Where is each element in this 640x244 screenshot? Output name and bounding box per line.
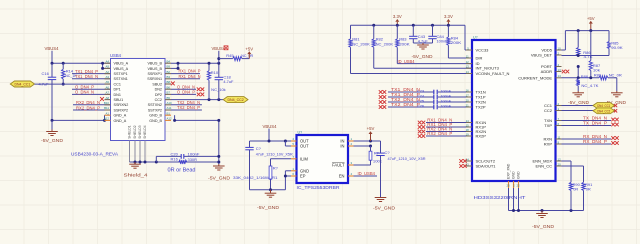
junction VBUS tie bottom [101,67,104,70]
wire ILIM [271,159,292,166]
junction PORT riser [577,65,580,68]
svg-text:B11: B11 [104,106,109,110]
svg-text:B10: B10 [104,101,110,105]
svg-text:12: 12 [466,60,470,64]
svg-text:20: 20 [558,162,562,166]
svg-text:NC_0R: NC_0R [609,72,622,77]
resistor R81 NC_200K [349,25,370,73]
wire RX1_DN4_N [426,122,466,124]
svg-text:O_DN4_N: O_DN4_N [75,90,94,95]
resistor R10 [207,63,225,99]
svg-text:HD3SS3220IRNHT: HD3SS3220IRNHT [474,195,526,201]
no-ERC X on DN4_CC2 (right) [614,109,617,112]
junction R16 branch at riser [217,161,220,164]
svg-text:CC2: CC2 [155,98,162,102]
HD3SS3220 left pin VCONN_FAULT_N (14) [466,70,510,76]
wire DN1 row [72,93,111,95]
svg-text:4.7uF: 4.7uF [223,79,234,84]
HD3SS3220 right pin CURRENT_MODE (14) [518,74,561,80]
svg-text:R16: R16 [171,157,179,162]
svg-text:C?: C? [385,150,391,155]
HD3SS3220 left pin RX1N (14) [466,119,487,125]
junction R82 top [372,24,375,27]
resistor R85 90.9K [607,31,623,56]
svg-text:C?: C? [256,146,262,151]
ground -5V_GND (left) [41,120,63,143]
svg-text:A1: A1 [105,111,109,115]
wire R81 to VCONN_FAULT_N row [351,73,473,75]
ground -5V_GND (below C?) [373,197,395,211]
junction GND/EP tie [284,175,287,178]
junction GND pin 22 [517,209,520,212]
svg-text:TX2P: TX2P [476,105,486,110]
svg-text:3.3V: 3.3V [393,14,402,19]
no-connect X on TX2_DN4_P stub [379,105,383,109]
USB4 left pin GND_A (A1) [105,111,127,117]
junction VBUS_DET riser bottom [577,54,580,57]
wire RX2_DN4_P [426,135,466,137]
svg-text:TXP: TXP [544,123,552,128]
svg-text:VBUS_A: VBUS_A [114,67,129,71]
wire IN1 row [354,140,381,142]
load switch right pin IN (1) [340,137,353,143]
wire TXP [562,125,612,127]
svg-text:200K: 200K [399,41,410,46]
no-connect X on DP2 [197,93,201,97]
junction at R14 top [62,62,65,65]
junction C84 top [431,24,434,27]
HD3SS3220 right pin CC1 (2) [544,102,562,108]
no-connect X on TXP [611,123,615,127]
junction shield pin [144,161,147,164]
svg-text:B8: B8 [167,80,171,84]
load switch left pin EP (6) [291,172,306,178]
HD3SS3220 left pin DIR (11) [466,54,483,60]
svg-text:SSRXN2: SSRXN2 [114,103,129,107]
wire TX2 P row [171,109,202,111]
HD3SS3220 left pin RX2P (19) [466,132,487,138]
svg-text:ID_USB4: ID_USB4 [358,171,376,176]
svg-text:B5: B5 [167,96,171,100]
svg-text:TX_DN4_P: TX_DN4_P [583,121,607,126]
power +5V (right rail) [590,24,592,31]
power VBUS4 (mid) [263,124,278,141]
wire TX1 N row [72,78,111,80]
svg-text:VCC33: VCC33 [476,48,490,53]
no-ERC X on DN4_CC1 [614,104,617,107]
HD3SS3220 left pin TX1N (16) [466,88,486,94]
svg-text:90.9K: 90.9K [611,45,623,50]
wire IN2 row [354,145,371,147]
svg-text:200K: 200K [451,40,462,45]
junction R83 / 3.3V [396,24,399,27]
HD3SS3220 left pin VCC33 (5) [466,46,489,52]
svg-text:IC_TPS2553DRBR: IC_TPS2553DRBR [297,185,340,190]
wire EN [354,175,378,177]
USB4 right pin SBU2 (B8) [152,80,171,86]
svg-text:22: 22 [516,184,520,188]
wire GND bus y190 [250,189,286,191]
svg-text:R10: R10 [211,70,219,75]
svg-text:+5V: +5V [245,46,253,51]
svg-text:TX2_DN4_P: TX2_DN4_P [177,105,200,110]
ground -5V_GND (bottom) [532,211,554,230]
HD3SS3220 right pin VDD5 (10) [541,46,561,52]
svg-text:O_DN4_P: O_DN4_P [177,90,195,95]
resistor R87 10k [589,31,601,78]
wire GND_A tie [52,115,105,120]
no-connect X on RXN [611,136,615,140]
svg-text:CURRENT_MODE: CURRENT_MODE [518,75,552,80]
resistor R83 200K [396,25,410,63]
wire GND/EP tie [285,171,291,190]
svg-text:U?: U? [473,35,478,39]
ground -5V_GND (C43/C84) [412,43,433,59]
HD3SS3220 right pin PORT (4) [541,63,562,69]
resistor R88 NC_4.7K [577,74,599,91]
junction R45 branch [217,57,220,60]
capacitor C? output 47uF [245,141,292,190]
svg-text:20: 20 [466,98,470,102]
svg-text:GND_B: GND_B [149,114,162,118]
svg-text:R45: R45 [226,53,234,58]
svg-text:FAULT: FAULT [332,163,345,168]
junction shield bus / C20 branch [155,161,158,164]
USB4 right pin CC2 (B5) [155,96,171,102]
svg-text:SSRXN1: SSRXN1 [147,77,162,81]
svg-text:GND_A: GND_A [114,114,127,118]
junction C43 top [412,24,415,27]
wire GND riser x218.8 [218,120,220,164]
HD3SS3220 right pin VBUS_DET (2) [531,51,562,57]
no-connect X on SBU1 [100,97,104,101]
svg-text:VBUS4: VBUS4 [263,124,278,129]
no-connect X on RX1_DN4_N stub [418,121,422,125]
svg-text:NC_4.7K: NC_4.7K [581,83,598,88]
junction VBUS_DET riser top [577,29,580,32]
svg-text:19: 19 [466,132,470,136]
wire R45 to +5V [242,58,249,60]
load switch left pin GND (1) [291,167,309,173]
HD3SS3220 bottom pin EXP_PAD (25) [506,163,510,210]
HD3SS3220 right pin CC2 (1) [544,107,562,113]
ground -5V_GND (R89) [605,91,626,105]
svg-text:VBUS4: VBUS4 [212,46,226,51]
wire TX2 N row [171,104,202,106]
junction R10 top [208,62,211,65]
svg-text:0R: 0R [573,187,578,192]
USB4 left pin SSTXN1 (A3) [105,75,128,81]
wire VBUS_DET riser / resistor R86 4.7K [577,31,593,59]
svg-text:3.3V: 3.3V [444,14,453,19]
HD3SS3220 left pin TX2N (20) [466,98,486,104]
wire VBUS_B tie x178 [177,63,179,68]
load switch right pin IN (2) [340,142,353,148]
svg-text:25: 25 [506,184,510,188]
USB4 shield pin Shield2 [133,125,137,162]
svg-text:USB4230-03-A_REVA: USB4230-03-A_REVA [71,152,119,158]
svg-text:A5: A5 [105,80,109,84]
resistor R14 [62,63,77,84]
wire R82 to INT_N/OUT3 [374,67,472,69]
USB4 shield pin Shield1 [128,125,132,162]
wire DN2 row [171,88,196,90]
svg-text:RX2_DN4_P: RX2_DN4_P [427,131,452,136]
no-connect X on SBU2 [171,82,175,86]
HD3SS3220 right pin RXN (11) [544,135,562,141]
svg-text:NC_0R: NC_0R [241,53,253,58]
USB4 right pin VBUS_B (B4) [147,59,171,65]
junction GND_B tie [173,119,176,122]
resistor R82 NC_200K [372,25,393,68]
junction GND_B at riser [217,119,220,122]
svg-text:VCONN_FAULT_N: VCONN_FAULT_N [476,71,510,76]
svg-text:-5V_GND: -5V_GND [412,54,433,59]
HD3SS3220 left pin SDA/OUT1 (23) [466,162,497,168]
svg-text:R?: R? [273,166,279,171]
svg-text:0R or Bead: 0R or Bead [168,168,196,174]
HD3SS3220 bottom pin GND (22) [516,171,520,211]
USB4 right pin GND_B (B1) [149,111,171,117]
wire to R45 [219,58,233,60]
wire DP2 row [171,93,196,95]
wire VBUS_A tie x102.6 [103,63,111,68]
capacitor C84 100nF [423,25,448,43]
wire RX1 N row [171,78,200,80]
resistor R91 0R [582,182,592,210]
svg-text:14: 14 [466,119,470,123]
svg-text:DP2: DP2 [155,93,162,97]
wire ENN_MDX to R90 [562,161,572,182]
load switch right pin EN (4) [339,172,354,178]
no-connect X on TX1_DN4_P stub [379,95,383,99]
svg-text:B12: B12 [104,117,110,121]
svg-text:GND: GND [512,171,516,179]
svg-text:-5V_GND: -5V_GND [373,206,395,211]
USB4 left pin VBUS_A (A9) [105,65,129,71]
USB4 right pin SSTXP2 (A11) [148,106,172,112]
wire RXP [562,143,612,145]
USB4 left pin SSRXP2 (B11) [104,106,128,112]
wire R89 to ground [608,78,617,91]
svg-text:SSTXP2: SSTXP2 [148,108,162,112]
wire VBUS_A rail y63 [52,62,111,64]
load switch left pin ILIM (7) [291,155,309,161]
svg-text:+5V: +5V [587,16,595,21]
svg-text:VBUS_B: VBUS_B [147,62,162,66]
svg-text:47uF_1210_10V_X5R: 47uF_1210_10V_X5R [256,151,293,156]
HD3SS3220 right pin TXN (7) [544,117,562,123]
resistor R90 0R [569,182,580,210]
wire CC2 row [171,99,223,101]
svg-text:Shield_4: Shield_4 [124,172,149,177]
junction shield pin [134,161,137,164]
wire VBUS_DET [562,55,610,57]
ground -5V_GND (load switch) [257,190,279,210]
power +3.3V (over R84) [447,22,449,26]
svg-text:CC1: CC1 [114,82,121,86]
svg-text:B4: B4 [167,59,171,63]
load switch left pin OUT (5) [291,142,309,148]
svg-text:EXP_PAD: EXP_PAD [507,163,511,179]
ground -5V_GND (mid-left) [208,164,230,181]
USB4 right pin SSRXN1 (B3) [147,75,171,81]
svg-text:100nF: 100nF [188,151,201,156]
wire TX1 P row [72,73,111,75]
junction PORT/CURRENT_MODE [577,76,580,79]
svg-text:VBUS4: VBUS4 [45,46,60,51]
wire CURRENT_MODE row [562,77,600,79]
svg-text:33K_0402_1/16W_R1: 33K_0402_1/16W_R1 [233,175,278,180]
wire RXN [562,138,612,140]
junction C18 bottom on CC2 [217,98,220,101]
capacitor C73 100nF series [388,88,466,94]
HD3SS3220 left pin RX2N (18) [466,128,487,134]
no-connect X on RXP [611,141,615,145]
junction R10 bottom on CC2 [208,98,211,101]
HD3SS3220 left pin SCL/OUT2 (24) [466,157,496,163]
junction C18 top / VBUS4 drop [217,62,220,65]
power VBUS4 (left) [45,46,60,63]
junction R90 bottom [570,209,573,212]
resistor R45 (NC_0R) [226,53,253,60]
svg-text:RX1_DN4_N: RX1_DN4_N [179,74,201,79]
svg-text:DN1: DN1 [114,93,121,97]
svg-text:-5V_GND: -5V_GND [41,138,63,143]
no-connect X on ADDR [562,70,566,74]
resistor R84 200K DIR pull [447,25,472,58]
HD3SS3220 left pin INT_N/OUT3 (13) [466,65,500,71]
junction GND wire at x52 [51,119,54,122]
svg-text:OUT: OUT [300,144,309,149]
svg-text:12: 12 [558,157,562,161]
no-connect X on SCL/OUT2 [459,159,463,163]
svg-text:47uF_1210_10V_X5R: 47uF_1210_10V_X5R [388,156,426,161]
svg-text:ADDR: ADDR [541,69,552,74]
capacitor C16 [39,63,57,86]
load switch right pin FAULT (3) [332,161,353,167]
svg-text:SBU1: SBU1 [114,98,124,102]
IC U? load switch body [297,135,349,183]
svg-text:A2: A2 [105,70,109,74]
junction GND tap [541,209,544,212]
no-connect X on DN2 [197,87,201,91]
wire RX1 P row [171,73,200,75]
svg-text:+5V: +5V [367,126,375,131]
power VBUS4 (top mid) [212,46,229,63]
svg-text:-5V_GND: -5V_GND [532,224,554,229]
wire CC1 [562,105,594,107]
net label DN4_CC2 (mid) [223,97,248,103]
wire RX1_DN4_P [426,126,466,128]
wire VBUS_B rail y63 [171,62,219,64]
no-connect X on SDA/OUT1 [459,164,463,168]
svg-text:14: 14 [558,74,562,78]
svg-text:DN4_CC2: DN4_CC2 [227,97,244,102]
svg-text:VBUS_B: VBUS_B [147,67,162,71]
wire DP1 row [72,88,111,90]
USB4 left pin SBU1 (A8) [105,96,124,102]
svg-text:13: 13 [558,68,562,72]
svg-text:VBUS_DET: VBUS_DET [531,53,553,58]
capacitor C75 100nF series [388,98,466,104]
svg-text:A6: A6 [105,85,109,89]
svg-text:A7: A7 [105,91,109,95]
wire CC1 y84 [35,83,111,85]
svg-text:15: 15 [466,123,470,127]
junction R14 bottom on CC1 wire [62,83,65,86]
USB4 left pin VBUS_A (A4) [105,59,129,65]
power +5V (mid) [370,134,372,141]
svg-text:RX_DN4_P: RX_DN4_P [583,139,607,144]
net label DN4_CC2 (right) [593,108,615,114]
HD3SS3220 left pin ID (12) [466,60,480,66]
svg-text:ID_USB4: ID_USB4 [398,59,416,64]
no-connect X on RX1_DN4_P stub [418,125,422,129]
svg-text:A12: A12 [167,117,173,121]
HD3SS3220 right pin ENN_CC (20) [536,162,562,168]
IC U? HD3SS3220 body [472,40,556,181]
svg-text:NC_200K: NC_200K [376,41,394,46]
no-connect X on TX2_DN4_N stub [379,100,383,104]
junction IN rail top [369,140,372,143]
svg-text:A3: A3 [105,75,109,79]
USB4 right pin SSRXP1 (B2) [147,70,171,76]
wire GND_B tie [175,115,219,120]
capacitor C74 100nF series [388,93,466,99]
svg-text:VBUS_A: VBUS_A [114,62,129,66]
wire OUT2 tie [284,141,286,146]
svg-text:GND: GND [517,171,521,179]
junction C20 branch at riser [217,155,220,158]
wire VDD5 riser [562,31,610,50]
junction VBUS_B tie top [177,62,180,65]
svg-text:R88: R88 [581,74,589,79]
USB4 shield pin Shield4 [143,125,147,162]
junction IN rail bottom [369,145,372,148]
svg-text:SSTXP1: SSTXP1 [114,72,128,76]
wire RX2 N row [73,104,111,106]
USB4 left pin DN1 (A7) [105,91,121,97]
svg-text:USB4: USB4 [110,53,122,58]
USB4 left pin SSRXN2 (B10) [104,101,128,107]
svg-text:EN: EN [339,174,345,179]
svg-text:0R: 0R [586,187,591,192]
svg-text:INT_N/OUT3: INT_N/OUT3 [476,66,500,71]
wire C20 branch riser [156,156,219,162]
wire CC2 [562,110,594,112]
wire PORT riser [577,67,579,78]
capacitor C18 [215,63,234,99]
capacitor C43 4.7uF [409,25,428,43]
wire VCC33 pin [465,49,472,51]
svg-text:330R: 330R [188,157,198,162]
no-connect X on RX2_DN4_P stub [418,134,422,138]
svg-text:TX1_DN4_N: TX1_DN4_N [75,74,98,79]
USB4 left pin GND_A (B12) [104,117,127,123]
svg-text:-5V_GND: -5V_GND [257,205,279,210]
svg-text:IN: IN [340,144,344,149]
USB4 left pin SSTXP1 (A2) [105,70,128,76]
svg-text:ENN_CC: ENN_CC [536,164,553,169]
wire OUT rail y141 [250,140,297,142]
resistor R16 [171,157,198,164]
svg-text:CC2: CC2 [544,108,553,113]
svg-text:RX2P: RX2P [476,134,487,139]
junction R86 riser top [589,29,592,32]
svg-text:NC_200K: NC_200K [352,41,370,46]
HD3SS3220 right pin RXP (9) [544,140,562,146]
